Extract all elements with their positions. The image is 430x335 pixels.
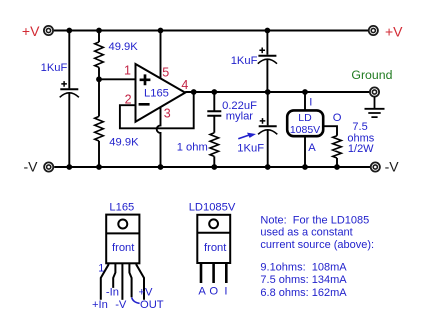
svg-text:front: front bbox=[112, 242, 135, 254]
svg-text:Ground: Ground bbox=[351, 68, 392, 82]
svg-text:+In: +In bbox=[92, 299, 108, 311]
svg-text:used as a constant: used as a constant bbox=[260, 226, 352, 238]
svg-text:1: 1 bbox=[124, 64, 131, 78]
svg-text:7.5 ohms: 134mA: 7.5 ohms: 134mA bbox=[260, 274, 347, 286]
svg-text:1KuF: 1KuF bbox=[41, 62, 68, 74]
svg-text:L165: L165 bbox=[109, 201, 134, 213]
svg-text:mylar: mylar bbox=[226, 111, 254, 123]
svg-text:I: I bbox=[309, 96, 312, 108]
svg-text:7.5: 7.5 bbox=[352, 121, 367, 133]
svg-text:1 ohm: 1 ohm bbox=[177, 142, 208, 154]
svg-text:9.1ohms: 108mA: 9.1ohms: 108mA bbox=[260, 262, 347, 274]
svg-text:6.8 ohms: 162mA: 6.8 ohms: 162mA bbox=[260, 287, 347, 299]
svg-text:-V: -V bbox=[385, 159, 400, 175]
svg-text:4: 4 bbox=[181, 78, 188, 92]
svg-text:1085V: 1085V bbox=[290, 124, 320, 136]
svg-text:-V: -V bbox=[24, 159, 39, 175]
svg-text:-In: -In bbox=[106, 287, 119, 299]
svg-text:49.9K: 49.9K bbox=[109, 137, 139, 149]
svg-text:O: O bbox=[209, 286, 218, 298]
svg-text:1KuF: 1KuF bbox=[237, 143, 264, 155]
svg-text:+V: +V bbox=[139, 287, 154, 299]
svg-text:+V: +V bbox=[22, 23, 40, 39]
svg-text:49.9K: 49.9K bbox=[109, 41, 139, 53]
svg-text:I: I bbox=[224, 286, 227, 298]
svg-text:Note: For the LD1085: Note: For the LD1085 bbox=[260, 214, 369, 226]
svg-text:A: A bbox=[198, 286, 206, 298]
svg-text:1/2W: 1/2W bbox=[348, 143, 374, 155]
svg-text:1KuF: 1KuF bbox=[231, 55, 258, 67]
svg-text:front: front bbox=[204, 242, 227, 254]
svg-text:O: O bbox=[333, 112, 342, 124]
svg-text:LD: LD bbox=[298, 112, 312, 124]
svg-text:A: A bbox=[308, 142, 316, 154]
svg-text:5: 5 bbox=[162, 65, 169, 79]
svg-text:+V: +V bbox=[385, 23, 403, 39]
svg-text:OUT: OUT bbox=[140, 299, 164, 311]
svg-text:L165: L165 bbox=[144, 87, 169, 99]
svg-text:-V: -V bbox=[115, 299, 127, 311]
svg-text:LD1085V: LD1085V bbox=[189, 201, 236, 213]
svg-text:1: 1 bbox=[98, 262, 104, 274]
svg-text:2: 2 bbox=[125, 93, 132, 107]
svg-text:3: 3 bbox=[164, 107, 171, 121]
svg-text:current source (above):: current source (above): bbox=[260, 239, 374, 251]
